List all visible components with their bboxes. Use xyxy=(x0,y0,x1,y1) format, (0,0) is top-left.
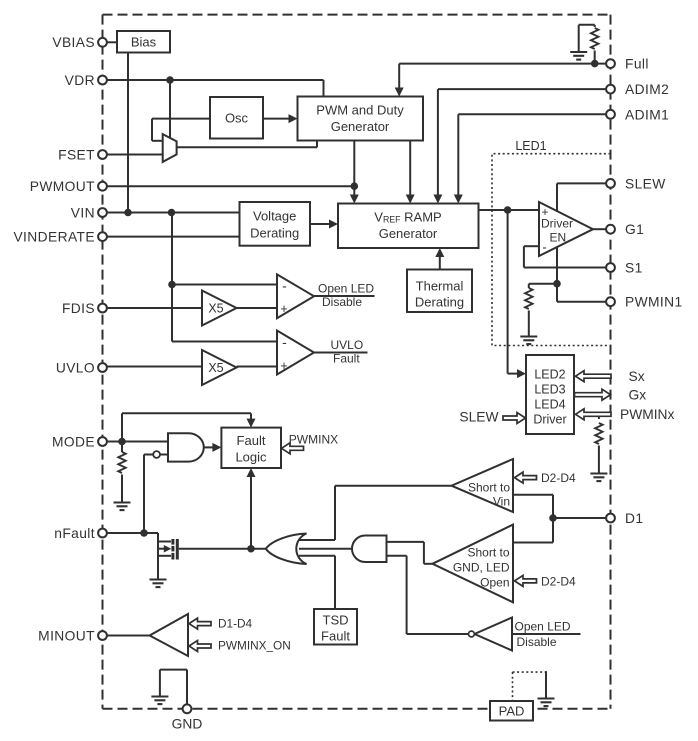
svg-text:Full: Full xyxy=(625,57,649,72)
svg-text:Fault: Fault xyxy=(321,629,350,644)
svg-text:Bias: Bias xyxy=(131,35,157,50)
svg-text:TSD: TSD xyxy=(323,613,349,628)
svg-text:GND: GND xyxy=(172,717,203,732)
svg-text:Logic: Logic xyxy=(235,450,267,465)
svg-text:D2-D4: D2-D4 xyxy=(541,575,576,589)
svg-text:-: - xyxy=(282,334,287,350)
svg-text:+: + xyxy=(280,302,287,316)
svg-text:Fault: Fault xyxy=(237,433,266,448)
svg-text:Open LED: Open LED xyxy=(318,282,374,296)
svg-text:nFault: nFault xyxy=(54,526,95,541)
svg-text:VIN: VIN xyxy=(71,205,95,220)
svg-text:LED3: LED3 xyxy=(534,383,565,397)
svg-text:PWMINX: PWMINX xyxy=(289,433,338,447)
svg-text:VINDERATE: VINDERATE xyxy=(13,229,95,244)
svg-text:PWM and Duty: PWM and Duty xyxy=(316,103,404,118)
svg-text:D1-D4: D1-D4 xyxy=(218,617,253,631)
svg-text:GND, LED: GND, LED xyxy=(453,560,510,574)
svg-text:MINOUT: MINOUT xyxy=(38,628,95,643)
svg-text:S1: S1 xyxy=(625,261,643,276)
svg-text:Sx: Sx xyxy=(629,369,645,384)
svg-text:Derating: Derating xyxy=(415,295,464,310)
svg-text:Open LED: Open LED xyxy=(515,620,571,634)
svg-text:FDIS: FDIS xyxy=(62,301,95,316)
svg-text:LED1: LED1 xyxy=(515,139,546,153)
svg-text:UVLO: UVLO xyxy=(56,360,95,375)
svg-text:Generator: Generator xyxy=(331,119,390,134)
svg-text:PWMINx: PWMINx xyxy=(620,407,675,422)
svg-text:Vin: Vin xyxy=(493,494,510,508)
svg-text:SLEW: SLEW xyxy=(459,409,498,424)
svg-text:UVLO: UVLO xyxy=(331,338,364,352)
svg-text:X5: X5 xyxy=(208,302,223,316)
svg-text:SLEW: SLEW xyxy=(625,176,666,191)
svg-text:Gx: Gx xyxy=(629,388,647,403)
svg-text:MODE: MODE xyxy=(52,434,95,449)
svg-text:Open: Open xyxy=(480,575,509,589)
svg-text:Osc: Osc xyxy=(225,111,249,126)
svg-text:-: - xyxy=(282,278,287,294)
svg-text:X5: X5 xyxy=(208,361,223,375)
svg-text:-: - xyxy=(542,240,546,255)
svg-text:Generator: Generator xyxy=(379,226,438,241)
svg-text:G1: G1 xyxy=(625,222,644,237)
svg-text:PWMIN1: PWMIN1 xyxy=(625,295,683,310)
svg-text:LED2: LED2 xyxy=(534,368,565,382)
svg-text:Voltage: Voltage xyxy=(253,209,296,224)
svg-text:D1: D1 xyxy=(625,511,643,526)
svg-text:Derating: Derating xyxy=(250,225,299,240)
svg-text:Fault: Fault xyxy=(333,352,360,366)
svg-text:PWMINX_ON: PWMINX_ON xyxy=(218,638,291,652)
svg-text:D2-D4: D2-D4 xyxy=(541,471,576,485)
svg-text:FSET: FSET xyxy=(58,147,95,162)
svg-text:VDR: VDR xyxy=(65,73,95,88)
svg-text:Thermal: Thermal xyxy=(416,279,464,294)
svg-text:Driver: Driver xyxy=(533,413,566,427)
svg-text:PAD: PAD xyxy=(499,704,525,719)
svg-text:+: + xyxy=(280,359,287,373)
svg-text:ADIM2: ADIM2 xyxy=(625,82,669,97)
svg-text:ADIM1: ADIM1 xyxy=(625,107,669,122)
svg-text:Short to: Short to xyxy=(468,480,510,494)
svg-text:Short to: Short to xyxy=(467,545,509,559)
svg-text:VBIAS: VBIAS xyxy=(52,35,95,50)
svg-text:Disable: Disable xyxy=(517,635,557,649)
svg-text:EN: EN xyxy=(550,231,567,245)
svg-text:PWMOUT: PWMOUT xyxy=(30,179,95,194)
svg-text:Driver: Driver xyxy=(541,217,573,231)
svg-text:LED4: LED4 xyxy=(534,398,565,412)
